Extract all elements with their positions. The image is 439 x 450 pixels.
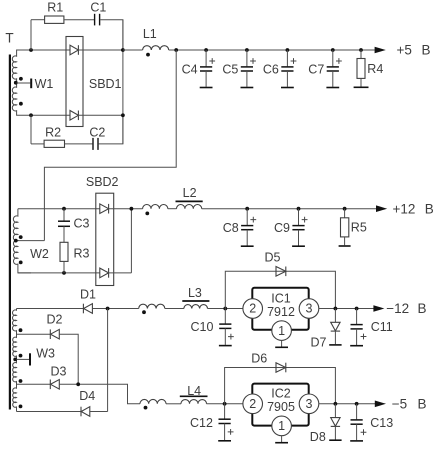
- diode D4: [80, 407, 82, 417]
- wire to L1: [123, 49, 143, 51]
- svg-text:+12: +12: [393, 201, 416, 216]
- node C3 top: [62, 207, 66, 211]
- svg-text:C13: C13: [370, 416, 393, 430]
- wire choke to L3: [165, 308, 184, 310]
- capacitor C4: [182, 48, 215, 87]
- wire SBD1 output bus: [122, 20, 124, 144]
- svg-text:D1: D1: [80, 288, 96, 302]
- svg-text:В: В: [418, 396, 427, 411]
- wire W3 bottom to D4: [17, 411, 82, 413]
- svg-text:В: В: [425, 201, 434, 216]
- node D1/D4 junction: [106, 307, 110, 311]
- coupled choke winding (-5V): [140, 399, 166, 403]
- protection diode D5 loop: [225, 271, 335, 308]
- diode D7: [311, 309, 342, 350]
- transformer core: [9, 55, 11, 410]
- svg-text:C8: C8: [223, 221, 239, 235]
- protection diode D6 loop: [225, 368, 336, 404]
- node D2/D3 junction: [76, 382, 80, 386]
- wire R3 to bottom: [63, 261, 65, 273]
- svg-text:L2: L2: [183, 186, 197, 200]
- wire D1 to node: [92, 308, 138, 310]
- wire R1C1 riser: [30, 20, 32, 50]
- SBD2 upper diode: [100, 204, 109, 214]
- wire R2C2 dropper: [30, 115, 32, 144]
- svg-text:D5: D5: [265, 250, 281, 264]
- svg-text:−12: −12: [386, 301, 409, 316]
- wire C3 to R3: [63, 226, 65, 242]
- svg-text:W3: W3: [36, 347, 55, 361]
- rectifier SBD1 box: [66, 37, 83, 127]
- node SBD2 output: [130, 207, 134, 211]
- wire +5V rail: [169, 49, 375, 51]
- capacitor C3: [63, 209, 65, 221]
- SBD1 upper diode: [70, 45, 78, 55]
- svg-text:В: В: [422, 43, 431, 58]
- wire W2 top to SBD2: [18, 208, 100, 210]
- wire L3 to IC1: [208, 308, 243, 310]
- resistor R4: [354, 48, 384, 87]
- node D8 junction: [334, 402, 338, 406]
- winding W2: [13, 209, 31, 273]
- svg-text:C2: C2: [89, 125, 105, 139]
- wire SBD2 upper out: [109, 208, 143, 210]
- wire stacked feed to W2 tap: [44, 50, 176, 241]
- svg-text:C12: C12: [190, 416, 213, 430]
- svg-text:2: 2: [249, 397, 256, 411]
- wire SBD1 upper out: [78, 49, 123, 51]
- svg-text:C6: C6: [263, 62, 279, 76]
- node C11 junction: [355, 307, 359, 311]
- W3 polarity dot 4: [19, 405, 23, 409]
- W2 polarity dot upper: [19, 235, 23, 239]
- wire SBD2 output bus: [130, 209, 132, 273]
- svg-text:1: 1: [278, 324, 285, 338]
- inductor L3: [184, 305, 208, 309]
- output arrow +12V: [376, 205, 387, 212]
- resistor R1: [45, 16, 64, 23]
- coupled choke winding (-12V): [139, 304, 165, 308]
- node L1 output: [174, 48, 178, 52]
- wire W2 bottom to SBD2: [18, 272, 100, 274]
- svg-text:3: 3: [306, 302, 313, 316]
- svg-text:R4: R4: [367, 62, 383, 76]
- svg-text:IC1: IC1: [271, 291, 291, 305]
- svg-text:D8: D8: [310, 430, 326, 444]
- wire IC1 out: [319, 308, 375, 310]
- svg-text:L4: L4: [187, 384, 201, 398]
- svg-text:R3: R3: [74, 247, 90, 261]
- diode D5: [276, 267, 286, 277]
- resistor R3: [60, 242, 68, 261]
- node D7 junction: [334, 307, 338, 311]
- W3 center tap wire: [17, 358, 30, 360]
- resistor R2: [44, 140, 64, 147]
- wire C1 to SBD1 output: [100, 20, 123, 50]
- diode D8: [310, 404, 342, 444]
- diode D6: [276, 363, 286, 373]
- wire R2 to C2: [65, 143, 93, 145]
- svg-text:C9: C9: [274, 221, 290, 235]
- wire W3 top to D1: [17, 308, 84, 310]
- capacitor C12: [190, 404, 233, 441]
- W3 polarity dot 2: [19, 354, 23, 358]
- SBD2 lower diode: [100, 268, 109, 278]
- node W1 bottom junction: [29, 113, 33, 117]
- wire D4 to D1 bus: [90, 411, 108, 413]
- W3 polarity dot 1: [19, 328, 23, 332]
- svg-text:C7: C7: [308, 62, 324, 76]
- svg-text:−5: −5: [392, 396, 407, 411]
- wire to R1: [31, 19, 45, 21]
- wire IC2 out: [319, 403, 375, 405]
- svg-text:W1: W1: [35, 77, 54, 91]
- svg-text:C5: C5: [222, 62, 238, 76]
- node W1 top junction: [29, 48, 33, 52]
- svg-text:R2: R2: [45, 125, 61, 139]
- rectifier SBD2 box: [96, 193, 114, 285]
- capacitor C6: [263, 48, 296, 87]
- svg-text:D7: D7: [311, 336, 327, 350]
- diode D2: [49, 329, 51, 339]
- W1 polarity dot lower: [19, 102, 23, 106]
- inductor L2: [177, 204, 202, 208]
- wire D1 node to D4: [107, 309, 109, 412]
- svg-text:D4: D4: [79, 389, 95, 403]
- svg-text:L1: L1: [143, 27, 157, 41]
- wire W1 bottom to SBD1: [31, 114, 70, 116]
- node SBD1 upper output: [121, 48, 125, 52]
- svg-text:L3: L3: [188, 286, 202, 300]
- capacitor C8: [223, 207, 256, 246]
- diode D3: [49, 380, 51, 390]
- svg-text:SBD2: SBD2: [86, 175, 119, 189]
- svg-text:D6: D6: [251, 352, 267, 366]
- svg-text:3: 3: [306, 397, 313, 411]
- wire to R2: [31, 143, 44, 145]
- wire +12V rail: [202, 208, 376, 210]
- capacitor C11: [350, 309, 393, 346]
- wire C2 to SBD1 output: [99, 115, 123, 144]
- output arrow -5V: [375, 401, 386, 408]
- node C12 junction: [223, 402, 227, 406]
- svg-text:W2: W2: [30, 247, 49, 261]
- node R3 bottom: [62, 271, 66, 275]
- svg-text:+5: +5: [397, 43, 412, 58]
- svg-text:C3: C3: [74, 217, 90, 231]
- svg-text:D3: D3: [51, 364, 67, 378]
- W1 center tap common bar: [30, 79, 32, 89]
- svg-text:SBD1: SBD1: [89, 77, 122, 91]
- W3 mid tap junction dot: [13, 358, 17, 362]
- W3 polarity dot 3: [19, 379, 23, 383]
- wire choke to L2: [168, 208, 177, 210]
- wire R1 to C1: [64, 19, 94, 21]
- wire D3 junction to L4 drop: [59, 384, 140, 404]
- W1 tap junction dot: [14, 81, 18, 85]
- svg-text:C11: C11: [371, 320, 393, 334]
- wire W3 tap1 to D2: [17, 333, 51, 335]
- W2 polarity dot lower: [19, 261, 23, 265]
- node SBD1 lower output: [121, 113, 125, 117]
- capacitor C2: [92, 138, 94, 150]
- W1 polarity dot upper: [19, 77, 23, 81]
- node C10 junction: [223, 307, 227, 311]
- svg-text:7912: 7912: [267, 305, 295, 319]
- winding W1: [12, 50, 31, 115]
- W2 tap junction dot: [14, 239, 18, 243]
- resistor R5: [339, 207, 367, 246]
- winding W3: [12, 309, 16, 412]
- svg-text:R1: R1: [47, 0, 63, 14]
- diode D1: [82, 304, 84, 314]
- wire W1 top to SBD1: [31, 49, 70, 51]
- capacitor C1: [94, 14, 96, 26]
- W2 center tap wire to +5V feed: [18, 240, 45, 242]
- capacitor C9: [274, 207, 307, 246]
- wire choke to L4: [166, 403, 181, 405]
- node C13 junction: [355, 402, 359, 406]
- capacitor C13: [350, 404, 393, 441]
- wire W3 tap3 to D3: [17, 383, 51, 385]
- SBD1 lower diode: [70, 111, 78, 121]
- svg-text:1: 1: [278, 419, 285, 433]
- svg-text:7905: 7905: [267, 400, 295, 414]
- wire SBD1 lower out: [78, 114, 123, 116]
- W1 center tap wire: [17, 82, 31, 84]
- wire D2 to D3 junction: [59, 334, 78, 384]
- inductor L1: [143, 46, 169, 50]
- svg-text:В: В: [418, 301, 427, 316]
- output arrow -12V: [373, 305, 384, 312]
- svg-text:2: 2: [249, 302, 256, 316]
- regulator IC2: [243, 384, 319, 443]
- W3 center tap common bar: [29, 353, 31, 365]
- svg-text:C4: C4: [182, 62, 198, 76]
- output arrow +5V: [375, 47, 386, 54]
- capacitor C5: [222, 48, 255, 87]
- coupled choke winding (+12V): [143, 204, 168, 208]
- svg-text:C10: C10: [191, 320, 214, 334]
- svg-text:D2: D2: [47, 313, 63, 327]
- wire SBD2 lower out: [109, 272, 132, 274]
- regulator IC1: [243, 288, 319, 348]
- svg-text:IC2: IC2: [271, 387, 291, 401]
- inductor L4: [181, 400, 207, 404]
- svg-text:R5: R5: [351, 221, 367, 235]
- capacitor C10: [191, 309, 234, 346]
- capacitor C7: [308, 48, 341, 87]
- svg-text:C1: C1: [90, 0, 106, 14]
- wire L4 to IC2: [207, 403, 243, 405]
- svg-text:T: T: [5, 31, 13, 46]
